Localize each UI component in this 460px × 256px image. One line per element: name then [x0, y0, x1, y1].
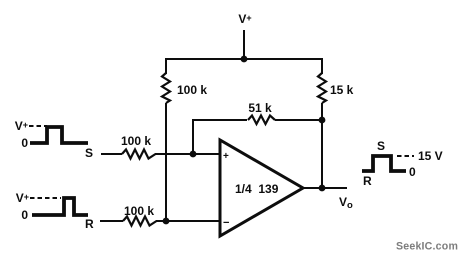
junction dot at V+ rail: [241, 56, 248, 63]
svg-text:R: R: [85, 217, 94, 231]
input waveform R pulse: [32, 198, 88, 215]
wire output: [302, 187, 347, 189]
junction dot output node: [319, 185, 326, 192]
resistor R5 100 k R input: [123, 217, 157, 226]
svg-text:R: R: [363, 174, 372, 188]
input waveform S pulse: [30, 127, 88, 143]
junction dot S feedback tap: [190, 151, 197, 158]
wire R to op-amp: [156, 220, 220, 222]
svg-text:0: 0: [21, 208, 28, 222]
wire feedback riser: [192, 120, 194, 154]
svg-text:0: 0: [21, 136, 28, 150]
wire left branch lower: [165, 103, 167, 221]
svg-text:V+: V+: [238, 12, 251, 26]
svg-text:Vo: Vo: [339, 195, 353, 211]
svg-text:100 k: 100 k: [124, 204, 154, 218]
svg-text:0: 0: [409, 165, 416, 179]
wire feedback horizontal left: [192, 119, 247, 121]
wire left branch upper: [165, 58, 167, 74]
resistor R4 100 k S input: [122, 150, 156, 159]
svg-text:15 k: 15 k: [330, 83, 354, 97]
input waveform R dashed level line: [30, 197, 61, 199]
svg-text:1/4 139: 1/4 139: [235, 182, 279, 196]
wire S input: [101, 153, 122, 155]
svg-text:15 V: 15 V: [418, 149, 443, 163]
wire V+ stem: [243, 30, 245, 59]
svg-text:100 k: 100 k: [177, 83, 207, 97]
wire S to op-amp: [155, 153, 220, 155]
output waveform pulse: [362, 156, 406, 171]
wire feedback horizontal right: [275, 119, 322, 121]
output waveform dashed level line: [397, 155, 414, 157]
svg-text:SeekIC.com: SeekIC.com: [396, 241, 458, 253]
svg-text:V+: V+: [15, 119, 28, 133]
wire top supply rail: [165, 58, 322, 60]
svg-text:100 k: 100 k: [121, 134, 151, 148]
resistor R2 15 k pull-up: [318, 73, 326, 103]
resistor R1 100 k pull-up: [162, 73, 170, 103]
svg-text:51 k: 51 k: [248, 101, 272, 115]
svg-text:S: S: [377, 139, 385, 153]
input waveform S dashed level line: [29, 125, 47, 127]
svg-text:S: S: [85, 146, 93, 160]
wire right branch lower: [321, 103, 323, 188]
wire right branch upper: [321, 58, 323, 74]
wire R input: [100, 220, 123, 222]
op-amp U1 1/4 139 comparator: [220, 140, 303, 236]
svg-text:−: −: [223, 217, 229, 229]
resistor R3 51 k feedback: [248, 116, 275, 125]
svg-text:+: +: [223, 151, 229, 162]
junction dot R pull-up tap: [163, 218, 170, 225]
junction dot feedback node: [319, 117, 326, 124]
svg-text:V+: V+: [16, 191, 29, 205]
